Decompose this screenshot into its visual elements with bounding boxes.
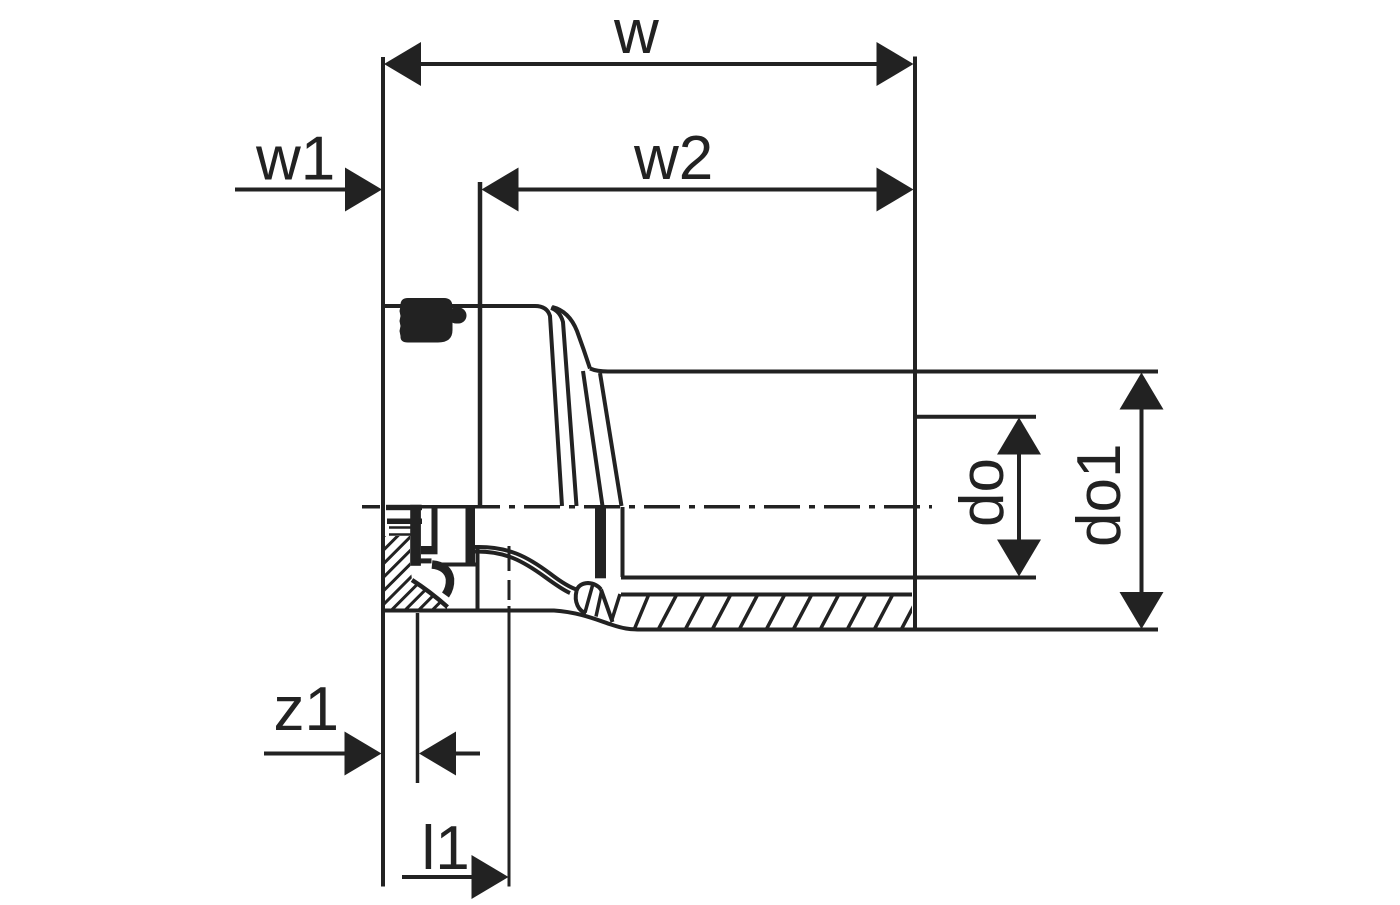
svg-text:w: w bbox=[613, 0, 659, 67]
swoosh curve B bbox=[475, 551, 570, 593]
nut thread bar 1 bbox=[386, 505, 422, 510]
section edge at centerline bbox=[440, 505, 467, 509]
arrow w2 right bbox=[877, 168, 914, 212]
lower-left section internals bbox=[386, 505, 606, 579]
centerline bbox=[362, 505, 932, 509]
leader w1 line bbox=[235, 188, 348, 192]
taper slant s3 outer corner curve bbox=[552, 307, 590, 369]
leader z1 opposing line bbox=[452, 752, 480, 756]
tube end black bar (right, at pipe bore start) bbox=[595, 507, 606, 579]
arrow w1 bbox=[345, 168, 382, 212]
dimension do line bbox=[1017, 450, 1021, 545]
horizontal bar 1 bbox=[421, 546, 438, 554]
swoosh curve A bbox=[475, 547, 578, 590]
leader z1 line bbox=[264, 752, 348, 756]
tube flared end cap left edge bbox=[576, 591, 586, 614]
nut thread thin lines bbox=[389, 528, 411, 535]
arrow do down bbox=[997, 540, 1041, 577]
taper slant d1 bbox=[583, 371, 603, 506]
extension line l1 x=509 (dash-dot) bbox=[508, 546, 511, 887]
arrow do up bbox=[997, 418, 1041, 455]
extension line left face x=383 bbox=[381, 57, 385, 887]
arrow w left bbox=[384, 42, 421, 86]
svg-text:w1: w1 bbox=[255, 125, 335, 194]
olive / gripping ring bbox=[412, 565, 450, 608]
nut hatching bbox=[370, 450, 470, 686]
taper slant d2 bbox=[600, 373, 622, 506]
nut thread bar 2 bbox=[387, 519, 422, 525]
dimension w line bbox=[420, 62, 878, 66]
pipe top + do1 top extension bbox=[590, 369, 1158, 372]
arrowheads bbox=[345, 42, 1164, 899]
arrow do1 up bbox=[1120, 373, 1164, 410]
dimension do1 line bbox=[1140, 407, 1144, 593]
bore start vertical edge bbox=[621, 507, 625, 577]
extension line w2 x=480 bbox=[478, 182, 483, 507]
taper slant s2 bbox=[551, 308, 577, 506]
svg-text:z1: z1 bbox=[274, 675, 339, 744]
tube flared end inside hatch bbox=[585, 586, 602, 617]
nose block outline bbox=[437, 549, 478, 611]
arrow l1 bbox=[472, 855, 509, 899]
tube end black bar (left) bbox=[466, 507, 476, 564]
arrow do1 down bbox=[1120, 592, 1164, 629]
tube inner wall line bbox=[621, 593, 912, 597]
body top + taper slant s1 bbox=[381, 306, 562, 506]
body outline bbox=[381, 306, 622, 506]
pipe wall strip hatching bbox=[609, 594, 920, 630]
pipe bottom + do1 bottom extension bbox=[383, 611, 1158, 630]
vertical bar body/nut interface bbox=[410, 505, 421, 566]
arrow z1 right-pointing bbox=[345, 732, 382, 776]
tube flared end right edge bbox=[601, 590, 613, 623]
extension line pipe end x=915 bbox=[913, 57, 917, 631]
vertical bar 2 bbox=[432, 507, 438, 547]
dimension w2 line bbox=[516, 188, 878, 192]
arrow w2 left bbox=[482, 168, 519, 212]
svg-text:w2: w2 bbox=[633, 124, 713, 193]
extension line z1 x=417.5 bbox=[416, 613, 420, 783]
arrow w right bbox=[877, 42, 914, 86]
arrow z1 left-pointing bbox=[419, 732, 456, 776]
tube flared end cap top bbox=[577, 583, 602, 591]
extension do top bbox=[917, 415, 1036, 419]
svg-text:l1: l1 bbox=[422, 814, 470, 883]
leader l1 line bbox=[402, 875, 476, 879]
olive lower arc bbox=[412, 580, 448, 607]
svg-text:do1: do1 bbox=[1065, 444, 1134, 547]
olive crescent (thick arc) bbox=[432, 565, 450, 596]
bore bottom + do bottom extension bbox=[621, 576, 1036, 580]
clamp screw black blob bbox=[400, 298, 467, 343]
horizontal bar 2 bbox=[415, 558, 432, 563]
svg-text:do: do bbox=[948, 458, 1017, 527]
